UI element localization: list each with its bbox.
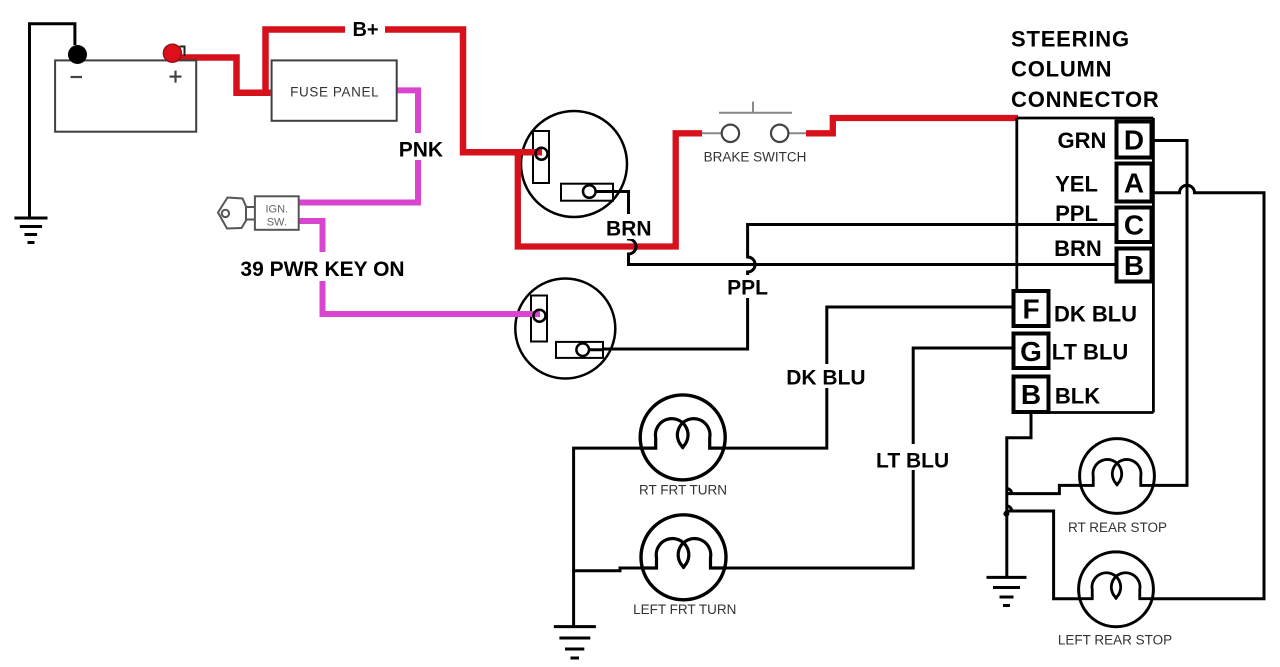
svg-text:SW.: SW. xyxy=(267,217,287,229)
svg-text:IGN.: IGN. xyxy=(265,204,288,216)
svg-text:LT BLU: LT BLU xyxy=(1052,340,1129,365)
svg-text:GRN: GRN xyxy=(1058,128,1107,153)
svg-text:BRN: BRN xyxy=(606,218,652,241)
svg-text:CONNECTOR: CONNECTOR xyxy=(1011,87,1160,112)
svg-text:39 PWR KEY ON: 39 PWR KEY ON xyxy=(240,258,404,281)
svg-text:G: G xyxy=(1020,336,1042,367)
svg-text:B: B xyxy=(1124,250,1144,281)
svg-text:LT BLU: LT BLU xyxy=(876,450,949,473)
svg-text:LEFT FRT TURN: LEFT FRT TURN xyxy=(633,602,736,617)
svg-text:LEFT REAR STOP: LEFT REAR STOP xyxy=(1058,633,1172,648)
svg-text:B+: B+ xyxy=(352,19,378,41)
svg-text:YEL: YEL xyxy=(1055,172,1098,197)
svg-text:PNK: PNK xyxy=(399,139,443,162)
svg-text:F: F xyxy=(1022,294,1039,325)
svg-text:PPL: PPL xyxy=(1055,201,1098,226)
svg-text:BRAKE SWITCH: BRAKE SWITCH xyxy=(704,150,807,165)
svg-text:BLK: BLK xyxy=(1055,384,1100,409)
svg-text:D: D xyxy=(1124,125,1144,156)
svg-text:COLUMN: COLUMN xyxy=(1011,57,1112,82)
svg-text:DK BLU: DK BLU xyxy=(786,367,865,390)
svg-text:PPL: PPL xyxy=(727,277,768,300)
svg-text:A: A xyxy=(1124,168,1144,199)
svg-text:DK BLU: DK BLU xyxy=(1054,302,1137,327)
svg-text:FUSE PANEL: FUSE PANEL xyxy=(290,85,379,100)
svg-text:RT REAR STOP: RT REAR STOP xyxy=(1068,520,1167,535)
svg-text:C: C xyxy=(1124,210,1144,241)
svg-text:B: B xyxy=(1021,379,1041,410)
svg-text:RT FRT TURN: RT FRT TURN xyxy=(639,483,727,498)
svg-text:STEERING: STEERING xyxy=(1011,27,1130,52)
svg-text:BRN: BRN xyxy=(1054,236,1102,261)
